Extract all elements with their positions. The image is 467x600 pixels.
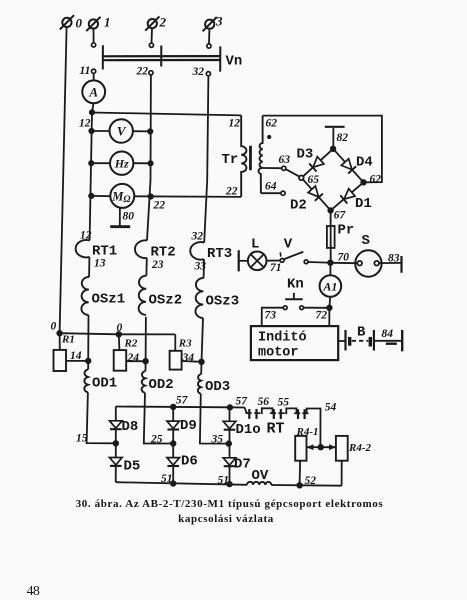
battery B short plate 2: [369, 337, 372, 347]
node 51 junction at D7: [227, 482, 232, 487]
node 35 junction: [227, 441, 232, 446]
resistor R2 stem: [118, 334, 121, 350]
transformer Tr secondary winding: [259, 116, 263, 194]
svg-text:48: 48: [27, 584, 40, 599]
svg-text:73: 73: [265, 310, 277, 322]
switch Vn upper contact 1: [92, 43, 96, 47]
potentiometer R4-2: [336, 436, 348, 461]
inductor OD1: [84, 369, 88, 392]
terminal 80 earth bar: [110, 225, 130, 228]
svg-text:3: 3: [215, 14, 223, 29]
node 62: [361, 180, 366, 185]
relay contact RT gap 2: [274, 409, 281, 419]
diode D3: [309, 156, 324, 171]
node 0 left junction: [57, 331, 62, 336]
wire 2 vertical from contact 22 down to RT2: [147, 75, 151, 241]
switch Vn upper contact 3: [207, 44, 211, 48]
svg-text:62: 62: [266, 118, 278, 130]
battery B long plate 2: [373, 330, 375, 351]
wire 3 vertical from contact 32 down to RT3: [204, 76, 208, 243]
battery B short plate 1: [348, 337, 351, 346]
node 52 junction: [297, 483, 302, 488]
pushbutton Kn right contact: [300, 306, 304, 310]
wire R1 to node 14: [66, 360, 88, 362]
wire phase3 drop to switch: [208, 29, 210, 44]
inductor OV: [247, 482, 271, 485]
wiper arrow into R4-2: [329, 444, 336, 450]
relay contact RT gap 1: [249, 409, 256, 419]
svg-text:R4-1: R4-1: [296, 426, 319, 438]
wire 67 to fuse Pr: [330, 210, 332, 262]
wire node 34 to OD3: [200, 362, 202, 374]
inductor OD3: [198, 374, 201, 394]
wire RT3 to OSz3: [203, 259, 205, 278]
svg-text:D6: D6: [181, 454, 198, 470]
wire Mohm left lead: [91, 195, 110, 197]
node junction Hz at wire2: [148, 161, 152, 165]
wire bridge edge 62 to 67: [331, 182, 364, 210]
svg-text:63: 63: [279, 154, 291, 166]
relay coil RT1: [76, 240, 90, 257]
svg-text:kapcsolási vázlata: kapcsolási vázlata: [178, 513, 274, 525]
svg-text:62: 62: [370, 174, 382, 186]
terminal 82 bar: [325, 126, 345, 128]
resistor R1 stem: [59, 333, 61, 350]
svg-text:22: 22: [225, 186, 238, 198]
svg-text:OSz3: OSz3: [206, 294, 240, 310]
diode D1: [340, 188, 355, 203]
svg-text:54: 54: [325, 402, 337, 414]
lamp L: [248, 251, 267, 270]
wire 72 from Kn to node 72: [304, 307, 328, 309]
svg-text:80: 80: [123, 211, 135, 223]
diode D10: [223, 407, 236, 443]
switch Vn blade bar: [103, 56, 221, 60]
svg-text:Inditó: Inditó: [258, 331, 307, 346]
ammeter A: [82, 80, 105, 103]
terminal 64: [281, 191, 285, 195]
svg-text:Tr: Tr: [222, 152, 239, 168]
svg-text:D9: D9: [180, 418, 197, 434]
svg-text:22: 22: [136, 66, 149, 78]
svg-text:D7: D7: [234, 457, 251, 473]
switch Vn lower contact 11: [92, 69, 96, 73]
svg-text:51: 51: [218, 475, 230, 487]
svg-text:14: 14: [70, 350, 82, 362]
node 0 middle junction: [117, 332, 122, 337]
wire node 14 to OD1: [87, 361, 89, 369]
svg-text:52: 52: [305, 475, 317, 487]
switch Vn lower contact 22: [149, 71, 153, 75]
wire OSz3 to node 34: [202, 318, 204, 362]
svg-text:Hz: Hz: [114, 157, 129, 171]
resistor R1: [54, 350, 67, 371]
svg-text:72: 72: [316, 310, 328, 322]
switch V blade: [284, 252, 303, 260]
terminal 0 (phase 0 input): [60, 15, 74, 29]
terminal 82 stem: [332, 128, 334, 149]
wire Hz left lead: [91, 162, 110, 164]
svg-text:0: 0: [117, 322, 123, 334]
switch Vn upper contact 2: [149, 43, 153, 47]
svg-text:34: 34: [182, 352, 195, 364]
svg-text:22: 22: [153, 200, 166, 212]
wire R4-1 bottom stem: [299, 461, 302, 486]
terminal 83 bar: [400, 256, 402, 273]
wire socket to terminal 83: [379, 262, 401, 264]
node top of bridge: [331, 147, 336, 152]
wire RT2 to OSz2: [145, 258, 147, 276]
switch Vn tick middle: [160, 46, 162, 67]
transformer polarity dot: [267, 135, 271, 139]
switch Vn tick right: [219, 46, 221, 71]
wire tap 63: [263, 167, 282, 169]
svg-text:D1o: D1o: [236, 422, 261, 438]
wire bar to lamp: [239, 260, 248, 262]
pushbutton Kn left contact: [283, 306, 287, 310]
node 65: [299, 176, 304, 181]
frequency meter Hz: [110, 152, 133, 175]
wire A1 to node 72: [328, 297, 331, 308]
svg-text:12: 12: [80, 230, 92, 242]
svg-text:24: 24: [127, 352, 140, 364]
svg-text:70: 70: [338, 252, 350, 264]
svg-text:D1: D1: [355, 196, 372, 212]
svg-text:83: 83: [388, 253, 400, 265]
switch V tick mark: [279, 252, 282, 256]
svg-text:OV: OV: [252, 468, 269, 484]
svg-text:1: 1: [104, 15, 111, 30]
svg-text:23: 23: [151, 259, 164, 271]
svg-text:D8: D8: [122, 419, 139, 435]
motor box Indito motor: [251, 326, 338, 360]
svg-text:OD2: OD2: [149, 377, 174, 393]
svg-text:12: 12: [79, 118, 91, 130]
bus 57 top: [116, 407, 245, 408]
potentiometer R4-1: [295, 436, 306, 461]
wire line 12 to transformer primary top: [92, 113, 241, 116]
pushbutton Kn bar: [285, 298, 303, 300]
bus 0: [60, 333, 176, 334]
svg-text:D3: D3: [297, 147, 314, 163]
svg-text:65: 65: [308, 174, 320, 186]
svg-text:15: 15: [76, 433, 88, 445]
wire bus bend into contact 1: [245, 408, 250, 414]
node 12 junction at V branch: [89, 129, 93, 133]
node 15 junction: [114, 441, 119, 446]
svg-text:D5: D5: [124, 459, 141, 475]
wire secondary bottom to terminal 64: [261, 192, 281, 194]
svg-text:32: 32: [192, 66, 205, 78]
svg-text:12: 12: [229, 118, 241, 130]
wire node 70 to socket S: [333, 262, 358, 264]
wire R3 to node 34: [182, 360, 202, 363]
wire hop between contact 1 and 2: [261, 408, 273, 413]
svg-text:RT3: RT3: [207, 246, 232, 262]
battery B long plate 1: [344, 330, 346, 351]
svg-text:B: B: [357, 325, 366, 341]
wire bridge edge top to 65: [302, 149, 334, 178]
terminal bar left of lamp L: [238, 250, 240, 271]
wire contact 3 up to corner 54 and down to wiper node: [307, 409, 321, 448]
wire motor box to battery: [338, 340, 345, 342]
wire V left lead: [92, 130, 110, 132]
node junction V at wire2: [148, 129, 152, 133]
svg-text:S: S: [362, 233, 370, 249]
svg-text:25: 25: [150, 434, 163, 446]
wire line 22 from Mohm to transformer bottom: [134, 195, 241, 198]
svg-text:V: V: [117, 124, 127, 139]
battery minus mark: [386, 343, 397, 345]
node 70: [328, 260, 333, 265]
node 51 junction at D6: [171, 481, 176, 486]
svg-text:A1: A1: [322, 280, 337, 294]
megohm meter Mohm: [110, 184, 134, 208]
wire hop between contact 2 and 3: [285, 408, 296, 413]
svg-text:30. ábra. Az AB-2-T/230-M1 típ: 30. ábra. Az AB-2-T/230-M1 típusú gépcso…: [76, 498, 384, 510]
node wiper junction: [318, 445, 323, 450]
wire Hz right lead to wire2: [133, 162, 150, 164]
voltmeter V: [110, 119, 133, 142]
svg-text:OSz2: OSz2: [149, 293, 183, 309]
diode D9: [167, 407, 180, 444]
wire A down wire1 to RT1: [92, 103, 94, 112]
terminal 63: [282, 166, 286, 170]
contact 71: [280, 259, 284, 263]
wire bridge edge 65 to 67: [302, 178, 331, 211]
wiper wire with arrows: [307, 446, 336, 448]
svg-text:67: 67: [334, 210, 347, 222]
node 25 junction: [171, 441, 176, 446]
wire node 70 down to ammeter A1: [329, 263, 331, 276]
fuse Pr: [327, 226, 335, 248]
svg-text:56: 56: [258, 396, 270, 408]
svg-text:0: 0: [51, 321, 57, 333]
wire OSz1 to node 14: [87, 315, 89, 361]
relay contact RT gap 3: [298, 409, 305, 419]
node 57 junction at D9: [171, 405, 176, 410]
wire RT1 to OSz1: [88, 257, 90, 277]
relay coil RT3: [190, 242, 204, 260]
svg-text:A: A: [88, 84, 98, 99]
wire OD3 down to stub 35: [200, 394, 229, 444]
wire OSz2 to node 24: [145, 317, 147, 361]
wiper arrow into R4-1: [307, 444, 314, 450]
bus 51 bottom: [116, 482, 248, 485]
transformer Tr primary winding: [241, 115, 246, 196]
svg-text:L: L: [251, 237, 259, 253]
wire lamp to contact 71: [267, 260, 281, 262]
wire secondary top 62 to bridge box: [263, 116, 382, 183]
inductor OSz3: [195, 278, 203, 318]
inductor OSz2: [139, 276, 147, 315]
inductor OD2: [142, 371, 146, 393]
pushbutton Kn stem: [293, 293, 295, 299]
node 14: [86, 359, 91, 364]
diode D2: [308, 186, 323, 201]
wire node 72 down to motor box: [328, 308, 330, 326]
relay coil RT2: [135, 240, 147, 258]
ammeter A1: [320, 275, 342, 297]
wire 1 vertical: [90, 112, 92, 240]
wire R4-2 bottom stem: [341, 461, 343, 486]
svg-text:71: 71: [270, 262, 282, 274]
switch Vn tick left: [102, 45, 104, 69]
svg-text:R3: R3: [178, 338, 192, 350]
diode D7: [223, 444, 236, 485]
wire 11 to ammeter A: [93, 73, 95, 80]
svg-text:82: 82: [337, 132, 349, 144]
wire V right lead to wire2: [133, 130, 150, 132]
resistor R3 stem: [174, 334, 176, 350]
svg-text:32: 32: [191, 231, 204, 243]
wire node 24 to OD2: [145, 361, 147, 371]
resistor R3: [170, 351, 182, 370]
diode D5: [110, 443, 123, 482]
terminal 1 (phase 1 input): [86, 17, 100, 31]
wire 73 from Kn to motor box: [262, 308, 284, 327]
switch V right contact: [304, 260, 308, 264]
node 22 junction at wire2: [149, 194, 153, 198]
wire phase1 drop to switch: [93, 29, 95, 43]
wire neutral rail from terminal 0 down to bus 0: [60, 27, 67, 333]
svg-text:57: 57: [236, 396, 249, 408]
socket S: [355, 250, 381, 276]
svg-text:Vn: Vn: [226, 54, 243, 70]
wire OD2 down to stub 25: [144, 393, 173, 444]
svg-text:64: 64: [265, 181, 277, 193]
wire R2 to node 24: [126, 360, 145, 362]
wire 63 to node 65: [286, 169, 300, 177]
inductor OSz1: [81, 277, 89, 315]
node 72: [327, 306, 332, 311]
wire bridge edge top to 62: [333, 149, 363, 183]
node 24: [143, 359, 148, 364]
svg-text:RT: RT: [267, 421, 285, 438]
svg-text:33: 33: [194, 261, 207, 273]
svg-text:51: 51: [161, 473, 173, 485]
svg-text:R4-2: R4-2: [348, 442, 372, 454]
wire contact to node 70: [308, 261, 328, 264]
svg-text:OSz1: OSz1: [92, 292, 126, 308]
wire OD1 down to corner 15: [87, 392, 116, 443]
svg-text:OD3: OD3: [205, 379, 230, 395]
terminal 84 bar: [401, 330, 403, 351]
svg-text:2: 2: [159, 15, 167, 30]
svg-text:Pr: Pr: [338, 223, 355, 239]
transformer Tr core: [249, 146, 252, 171]
node junction Hz left: [89, 161, 93, 165]
resistor R2: [114, 350, 127, 371]
node junction Mohm left: [89, 194, 93, 198]
svg-text:35: 35: [211, 434, 224, 446]
svg-text:D2: D2: [290, 198, 307, 214]
node 12 junction under A: [90, 110, 94, 114]
wire battery to terminal 84: [375, 340, 402, 342]
battery dashed link: [352, 340, 369, 342]
diode D4: [341, 158, 356, 173]
svg-text:55: 55: [278, 397, 290, 409]
diode D8: [110, 407, 123, 444]
terminal 3 (phase 3 input): [203, 17, 217, 31]
switch Vn lower contact 32: [206, 72, 210, 76]
svg-text:MΩ: MΩ: [111, 189, 130, 205]
node 34: [199, 360, 204, 365]
terminal 80 stem under Mohm: [119, 208, 121, 227]
diode D6: [167, 444, 180, 484]
svg-text:D4: D4: [356, 155, 373, 171]
terminal 2 (phase 2 input): [145, 16, 159, 30]
svg-text:Kn: Kn: [287, 277, 304, 293]
svg-text:R1: R1: [61, 334, 75, 346]
svg-text:OD1: OD1: [92, 376, 117, 392]
node 57 junction at D10: [228, 405, 233, 410]
wire phase2 drop to switch: [151, 28, 154, 43]
svg-text:13: 13: [94, 258, 106, 270]
svg-text:0: 0: [76, 16, 83, 31]
svg-text:R2: R2: [124, 338, 138, 350]
svg-text:motor: motor: [258, 346, 299, 361]
svg-text:V: V: [284, 237, 293, 253]
svg-text:57: 57: [176, 395, 189, 407]
svg-text:84: 84: [382, 328, 394, 340]
svg-text:11: 11: [80, 65, 91, 77]
node 67: [328, 208, 333, 213]
